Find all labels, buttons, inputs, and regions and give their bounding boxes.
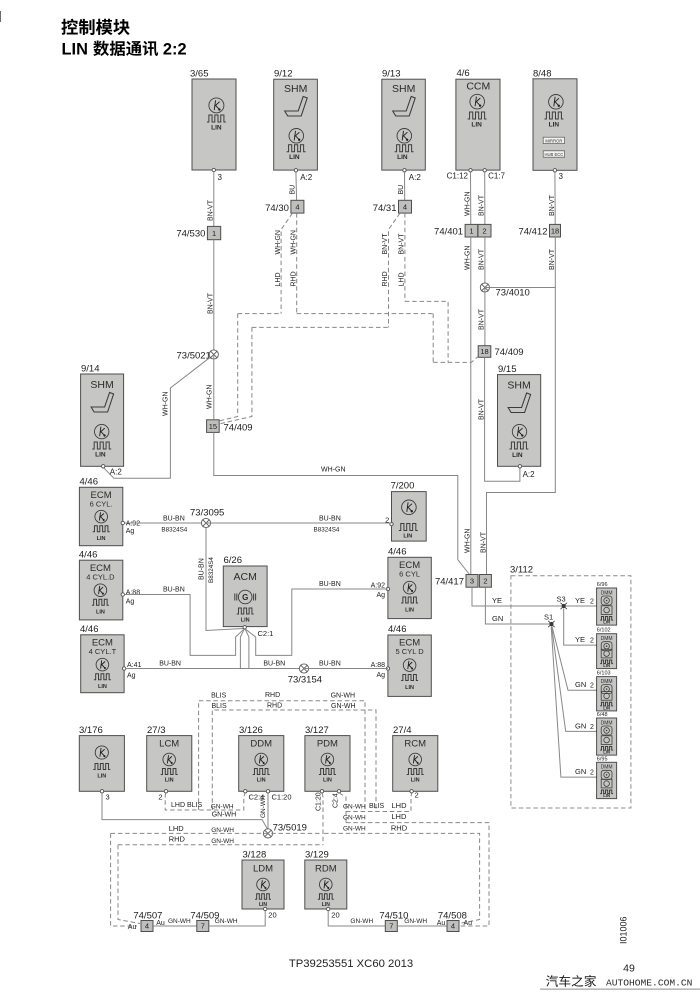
svg-text:LIN: LIN [603, 663, 610, 668]
svg-text:C2:1: C2:1 [258, 629, 274, 638]
svg-text:Ag: Ag [126, 599, 135, 606]
svg-text:LIN: LIN [549, 122, 560, 129]
wire BN-VT loop around 9/15 to 74/417 pin 2 [480, 288, 555, 575]
svg-text:74/31: 74/31 [373, 203, 397, 214]
dashed LCM to DDM C2:4 link [165, 793, 245, 811]
wire GN-WH DDM C1:20 down [260, 793, 268, 829]
svg-text:C1:20: C1:20 [272, 793, 292, 802]
svg-text:LIN: LIN [603, 750, 610, 755]
svg-text:3/176: 3/176 [79, 725, 103, 736]
svg-text:BN-VT: BN-VT [549, 194, 556, 216]
page edge mark [0, 11, 2, 22]
svg-text:7/200: 7/200 [391, 481, 415, 492]
svg-text:CCM: CCM [466, 81, 490, 93]
wire GN-WH 74/509 to LDM pin 20 [209, 911, 265, 926]
module 4/6 CCM [447, 68, 506, 181]
dashed RHD right bus [324, 824, 480, 924]
wire GN-WH 74/510 to 74/508 [397, 918, 447, 926]
svg-text:GN-WH: GN-WH [260, 795, 267, 818]
title line 1 [61, 19, 129, 35]
svg-text:C1:20: C1:20 [315, 792, 322, 811]
svg-text:WH-GN: WH-GN [206, 385, 213, 410]
svg-text:6/96: 6/96 [597, 582, 608, 588]
module 3/127 PDM [305, 725, 350, 811]
svg-text:BN-VT: BN-VT [479, 308, 486, 330]
wire BN-VT 74/409-18 to 9/15 A:2 [478, 357, 520, 481]
svg-text:LCM: LCM [159, 739, 179, 750]
svg-text:GN: GN [575, 680, 586, 689]
svg-text:SHM: SHM [392, 83, 415, 95]
svg-text:74/30: 74/30 [265, 203, 289, 214]
svg-text:GN-WH: GN-WH [215, 918, 238, 925]
svg-text:LIN: LIN [411, 778, 420, 784]
svg-text:4: 4 [295, 202, 299, 211]
dashed LHD-31 link right [405, 301, 448, 362]
svg-text:BN-VT: BN-VT [480, 531, 487, 553]
svg-text:18: 18 [551, 226, 559, 235]
svg-text:LHD: LHD [275, 272, 282, 286]
wire BN-VT LHD from 74/31 (dashed) [399, 213, 406, 301]
title line 2 [62, 41, 187, 59]
svg-text:GN: GN [575, 767, 586, 776]
svg-text:GN-WH: GN-WH [211, 804, 234, 811]
svg-text:TP39253551 XC60 2013: TP39253551 XC60 2013 [289, 958, 413, 970]
svg-text:3: 3 [470, 577, 474, 586]
svg-text:LHD: LHD [391, 812, 407, 821]
wire BU 9/12 pin A:2 [289, 172, 296, 200]
dashed drop to 74/409 left a [217, 314, 238, 422]
svg-text:27/3: 27/3 [147, 725, 166, 736]
wire WH-GN 9/14 loop [104, 358, 210, 478]
svg-text:GN: GN [492, 614, 503, 623]
svg-text:I01006: I01006 [619, 916, 629, 944]
wire BN-VT 74/401-2 to splice 73/4010 [479, 237, 486, 288]
splice 73/5021 [177, 350, 219, 362]
module 3/128 LDM [242, 850, 284, 920]
dashed left LHD drop to 74/507 [111, 833, 137, 926]
wire WH-GN RHD from 74/30 (dashed) [290, 213, 297, 314]
svg-text:3/128: 3/128 [243, 850, 267, 861]
svg-text:BN-VT: BN-VT [479, 248, 486, 270]
svg-text:DMM: DMM [601, 679, 613, 685]
svg-text:A:2: A:2 [523, 470, 536, 479]
svg-text:5 CYL D: 5 CYL D [396, 647, 425, 656]
svg-text:WH-GN: WH-GN [275, 230, 282, 255]
svg-text:GN-WH: GN-WH [211, 838, 234, 845]
connector 74/31 pin 4 [373, 200, 412, 214]
svg-text:WH-GN: WH-GN [465, 529, 472, 554]
wire splice 73/4010 horizontal [485, 287, 555, 289]
svg-text:73/5019: 73/5019 [273, 823, 307, 834]
footer watermark [540, 975, 700, 989]
svg-text:WH-GN: WH-GN [321, 467, 346, 474]
svg-text:49: 49 [623, 963, 635, 975]
svg-text:LHD: LHD [392, 801, 408, 810]
svg-text:DMM: DMM [601, 636, 613, 642]
svg-text:MIRROR: MIRROR [545, 138, 562, 143]
module 9/12 SHM [274, 69, 318, 183]
svg-text:8/48: 8/48 [533, 69, 552, 80]
svg-text:A:92: A:92 [126, 521, 141, 528]
svg-text:LIN: LIN [405, 685, 414, 691]
footer page number 49 [623, 963, 635, 975]
wire BU-BN row3 [126, 661, 304, 669]
svg-text:2:2: 2:2 [163, 41, 187, 59]
label Au 74/508 left [437, 920, 446, 927]
svg-text:BU: BU [289, 185, 296, 195]
connector 74/30 pin 4 [265, 200, 304, 214]
svg-text:LIN: LIN [397, 154, 408, 161]
svg-text:YE: YE [492, 596, 502, 605]
svg-text:3/127: 3/127 [305, 725, 329, 736]
svg-text:Au: Au [128, 924, 137, 931]
module 9/15 SHM [498, 364, 541, 479]
svg-text:RCM: RCM [404, 739, 426, 750]
svg-text:6/102: 6/102 [597, 628, 611, 634]
svg-text:SHM: SHM [284, 83, 307, 95]
module 27/4 RCM [393, 725, 438, 800]
wire BN-VT splice to 74/409-18 [479, 288, 486, 346]
svg-text:BN-VT: BN-VT [478, 398, 485, 420]
connector 74/401 pins 1 2 [434, 224, 491, 237]
module 7/200 [385, 481, 426, 542]
svg-text:6/103: 6/103 [597, 671, 611, 677]
dashed bus LHD link h2 [252, 326, 389, 328]
svg-text:B8324S4: B8324S4 [161, 527, 187, 534]
svg-text:BU-BN: BU-BN [319, 516, 341, 523]
wire GN S1 to 6/95 [551, 626, 598, 778]
wire BN-VT 3/65 pin3 [208, 172, 215, 227]
svg-text:15: 15 [209, 422, 217, 431]
splice 73/4010 [480, 283, 530, 299]
module 3/129 RDM [305, 850, 347, 920]
svg-text:9/15: 9/15 [498, 364, 517, 375]
module 4/46 ECM 5CYL D [371, 624, 432, 696]
node S3 [557, 595, 567, 610]
svg-text:G: G [242, 593, 248, 602]
svg-text:3/126: 3/126 [239, 725, 263, 736]
svg-text:20: 20 [331, 911, 339, 920]
svg-text:3/129: 3/129 [305, 850, 329, 861]
svg-text:4/46: 4/46 [80, 624, 99, 635]
svg-text:S3: S3 [557, 595, 566, 604]
dashed BLIS line 2 [212, 703, 377, 812]
svg-text:4/6: 4/6 [457, 68, 470, 79]
wire YE 74/417-3 to S3 [472, 587, 562, 606]
svg-text:7: 7 [389, 922, 393, 931]
svg-text:BN-VT: BN-VT [208, 292, 215, 314]
svg-text:A:2: A:2 [300, 173, 313, 182]
splice 73/3154 [288, 664, 322, 686]
svg-text:BU-BN: BU-BN [319, 581, 341, 588]
svg-text:BN-VT: BN-VT [208, 199, 215, 221]
footer plate id I01006 [619, 916, 629, 944]
dashed box 3/112 [510, 565, 631, 809]
splice 73/5019 [263, 823, 307, 839]
svg-text:LIN: LIN [289, 154, 300, 161]
svg-text:BN-VT: BN-VT [399, 233, 406, 255]
svg-text:DDM: DDM [250, 739, 272, 750]
wire BU-BN row2 right loop to ACM [246, 581, 388, 655]
wire BU-BN row1 left [125, 516, 207, 534]
svg-text:LIN: LIN [97, 774, 106, 780]
svg-text:2: 2 [590, 724, 594, 731]
wire BU-BN splice down to ACM [199, 528, 243, 631]
svg-text:GN-WH: GN-WH [350, 918, 373, 925]
svg-text:2: 2 [415, 791, 419, 800]
wire GN-WH 3/176 to splice 73/5019 [102, 793, 268, 830]
svg-text:B8324S4: B8324S4 [314, 527, 340, 534]
module 6/103 DMM [597, 671, 617, 711]
svg-text:WH-GN: WH-GN [465, 192, 472, 217]
svg-text:RHD: RHD [267, 703, 282, 710]
svg-text:LIN: LIN [257, 778, 266, 784]
svg-text:Ag: Ag [376, 592, 385, 599]
svg-text:LHD: LHD [169, 824, 185, 833]
svg-text:LHD BLIS: LHD BLIS [171, 802, 202, 809]
svg-text:LIN: LIN [62, 41, 88, 59]
svg-text:9/12: 9/12 [274, 69, 293, 80]
svg-text:BLIS: BLIS [211, 693, 227, 700]
svg-text:WH-GN: WH-GN [465, 246, 472, 271]
svg-text:DMM: DMM [601, 590, 613, 596]
svg-text:4 CYL.D: 4 CYL.D [86, 573, 115, 582]
svg-text:4/46: 4/46 [80, 477, 99, 488]
splice 73/3095 [190, 508, 224, 528]
svg-text:4/46: 4/46 [388, 547, 407, 558]
label Au 74/508 right [464, 920, 473, 927]
svg-text:RHD: RHD [391, 824, 408, 833]
svg-text:A:41: A:41 [127, 662, 142, 669]
svg-text:LIN: LIN [603, 793, 610, 798]
svg-text:Ag: Ag [126, 528, 135, 535]
svg-text:C1:12: C1:12 [447, 172, 469, 181]
module 6/95 DMM [597, 756, 617, 798]
wire BU-BN row1 right [206, 516, 392, 534]
dashed LHD right bus [343, 812, 489, 926]
wire WH-GN CCM pin C1:12 [465, 172, 472, 224]
svg-text:WH-GN: WH-GN [290, 230, 297, 255]
svg-text:LIN: LIN [471, 122, 482, 129]
svg-text:A:2: A:2 [110, 468, 123, 477]
svg-text:27/4: 27/4 [393, 725, 412, 736]
module 6/96 DMM [597, 582, 617, 625]
svg-text:AUTOHOME.COM.CN: AUTOHOME.COM.CN [606, 978, 692, 989]
module 27/3 LCM [147, 725, 192, 802]
svg-text:BN-VT: BN-VT [479, 194, 486, 216]
label Au left [128, 924, 137, 931]
svg-text:A:2: A:2 [409, 173, 422, 182]
connector 74/508 pin 4 [438, 911, 467, 932]
wire GN S1 to 6/48 [552, 626, 598, 732]
svg-text:2: 2 [590, 683, 594, 690]
svg-text:6/26: 6/26 [224, 555, 243, 566]
svg-text:LIN: LIN [241, 618, 250, 624]
svg-text:6 CYL: 6 CYL [399, 570, 420, 579]
module 3/176 [79, 725, 124, 802]
connector 74/409 pin 18 [478, 346, 523, 358]
dashed bus RHD link h1 [238, 313, 434, 315]
connector 74/412 pin 18 [518, 224, 560, 237]
wire YE S3 to 6/102 [564, 609, 598, 647]
svg-text:BU: BU [398, 185, 405, 195]
connector 74/509 pin 7 [190, 911, 219, 932]
svg-text:4/46: 4/46 [388, 624, 407, 635]
svg-text:4: 4 [145, 922, 149, 931]
svg-text:20: 20 [268, 911, 276, 920]
connector 74/530 pin 1 [176, 226, 220, 239]
svg-text:LIN: LIN [165, 778, 174, 784]
svg-text:SHM: SHM [90, 379, 113, 391]
wire GN 74/417-2 to S1 [485, 587, 549, 624]
svg-text:73/3095: 73/3095 [190, 508, 224, 519]
svg-text:BU-BN: BU-BN [263, 661, 285, 668]
svg-text:73/5021: 73/5021 [177, 351, 211, 362]
svg-text:2: 2 [590, 638, 594, 645]
svg-text:73/3154: 73/3154 [288, 675, 322, 686]
dashed LHD left bus [111, 824, 323, 834]
svg-text:LIN: LIN [98, 684, 107, 690]
svg-text:3: 3 [106, 793, 110, 802]
dashed drop to 74/409 left b [219, 327, 252, 424]
svg-text:LIN: LIN [512, 452, 523, 459]
svg-text:A:92: A:92 [371, 583, 386, 590]
svg-text:4: 4 [451, 922, 455, 931]
svg-text:RHD: RHD [169, 835, 186, 844]
svg-text:B8324S4: B8324S4 [208, 557, 215, 583]
svg-text:3: 3 [218, 173, 223, 182]
svg-text:DMM: DMM [601, 720, 613, 726]
node S1 [544, 613, 555, 628]
svg-text:LIN: LIN [95, 452, 106, 459]
svg-text:2: 2 [482, 226, 486, 235]
svg-text:73/4010: 73/4010 [496, 288, 530, 299]
dashed PDM to RCM link [343, 793, 412, 812]
module 3/65 [190, 69, 236, 183]
svg-text:GN-WH: GN-WH [343, 826, 366, 833]
wire GN-WH 74/507 to 74/509 [153, 918, 197, 926]
label Au 74/507 right [156, 920, 165, 927]
svg-text:A:88: A:88 [126, 590, 141, 597]
svg-text:BU-BN: BU-BN [199, 558, 206, 580]
svg-text:BU-BN: BU-BN [319, 661, 341, 668]
module 3/126 DDM [239, 725, 292, 802]
svg-text:HUB ECC: HUB ECC [544, 152, 563, 157]
svg-text:GN-WH: GN-WH [343, 815, 366, 822]
dashed drop to 74/409 right [433, 314, 477, 363]
svg-text:4 CYL.T: 4 CYL.T [89, 647, 117, 656]
svg-text:RHD: RHD [265, 692, 280, 699]
svg-text:LIN: LIN [603, 705, 610, 710]
wire BU-BN row2 left loop to ACM [125, 587, 244, 656]
svg-text:SHM: SHM [507, 380, 530, 392]
wire BN-VT CCM pin C1:7 [479, 172, 486, 224]
wire WH-GN 74/401-1 down to 74/417 pin 3 [465, 237, 472, 575]
svg-text:BN-VT: BN-VT [549, 248, 556, 270]
module 4/46 ECM 4CYL.D [79, 550, 140, 620]
svg-text:LIN: LIN [405, 608, 414, 614]
svg-text:2: 2 [590, 599, 594, 606]
svg-text:6/95: 6/95 [597, 756, 608, 762]
svg-text:LIN: LIN [96, 610, 105, 616]
svg-text:1: 1 [212, 229, 216, 238]
svg-text:2: 2 [590, 770, 594, 777]
svg-text:GN-WH: GN-WH [343, 804, 366, 811]
svg-text:S1: S1 [544, 613, 553, 622]
svg-text:GN-WH: GN-WH [168, 918, 191, 925]
svg-text:GN-WH: GN-WH [211, 827, 234, 834]
svg-text:A:88: A:88 [371, 662, 386, 669]
svg-text:C1:7: C1:7 [488, 172, 505, 181]
svg-text:BLIS: BLIS [212, 703, 228, 710]
svg-text:BU-BN: BU-BN [159, 661, 181, 668]
svg-text:BU-BN: BU-BN [163, 516, 185, 523]
svg-text:9/13: 9/13 [382, 69, 401, 80]
wire WH-GN splice to 74/409-15 [206, 355, 213, 420]
wire BN-VT to splice 73/5021 [208, 240, 215, 355]
svg-text:3/65: 3/65 [190, 69, 209, 80]
svg-text:GN-WH: GN-WH [331, 703, 356, 710]
svg-text:RHD: RHD [382, 271, 389, 286]
svg-text:18: 18 [480, 347, 488, 356]
svg-text:BN-VT: BN-VT [382, 233, 389, 255]
svg-text:7: 7 [201, 922, 205, 931]
wire YE S3 to 6/96 [566, 596, 598, 607]
svg-text:Au: Au [464, 920, 473, 927]
svg-text:RHD: RHD [290, 271, 297, 286]
svg-text:YE: YE [575, 596, 585, 605]
svg-text:ACM: ACM [234, 571, 257, 583]
module 9/13 SHM [382, 69, 426, 183]
svg-text:BU-BN: BU-BN [163, 587, 185, 594]
svg-text:2: 2 [483, 577, 487, 586]
svg-text:74/412: 74/412 [518, 227, 547, 238]
svg-text:2: 2 [158, 793, 162, 802]
svg-text:1: 1 [469, 226, 473, 235]
wire GN-WH RDM pin 20 to 74/510 [328, 911, 385, 926]
connector 74/510 pin 7 [379, 911, 408, 932]
svg-text:GN-WH: GN-WH [404, 918, 427, 925]
module 9/14 SHM [81, 364, 124, 477]
wire BU-BN row3 right [304, 661, 388, 669]
svg-text:LIN: LIN [323, 778, 332, 784]
svg-text:74/409: 74/409 [495, 347, 524, 358]
module 8/48 [533, 69, 577, 182]
dashed left RHD drop to 74/507 [118, 845, 140, 924]
svg-text:LIN: LIN [603, 620, 610, 625]
svg-text:4: 4 [403, 202, 407, 211]
wire ACM down a [240, 629, 244, 668]
module 4/46 ECM 6CYL right [371, 547, 432, 619]
module 6/26 ACM [223, 555, 273, 638]
wire ACM down b [245, 629, 249, 668]
svg-text:YE: YE [575, 635, 585, 644]
svg-text:BLIS: BLIS [369, 803, 385, 810]
svg-text:WH-GN: WH-GN [162, 392, 169, 417]
svg-text:LHD: LHD [399, 272, 406, 286]
svg-text:DMM: DMM [601, 765, 613, 771]
wire BU 9/13 pin A:2 [398, 172, 405, 200]
wire BN-VT 8/48 pin 3 [549, 172, 556, 224]
svg-text:3: 3 [559, 172, 564, 181]
svg-text:74/409: 74/409 [224, 423, 253, 434]
svg-text:GN: GN [575, 722, 586, 731]
module 6/48 DMM [597, 712, 617, 755]
dashed BLIS line 1 [199, 692, 365, 812]
module 4/46 ECM 4CYL.T [80, 624, 142, 693]
svg-text:3/112: 3/112 [510, 565, 533, 576]
svg-text:GN-WH: GN-WH [331, 693, 356, 700]
